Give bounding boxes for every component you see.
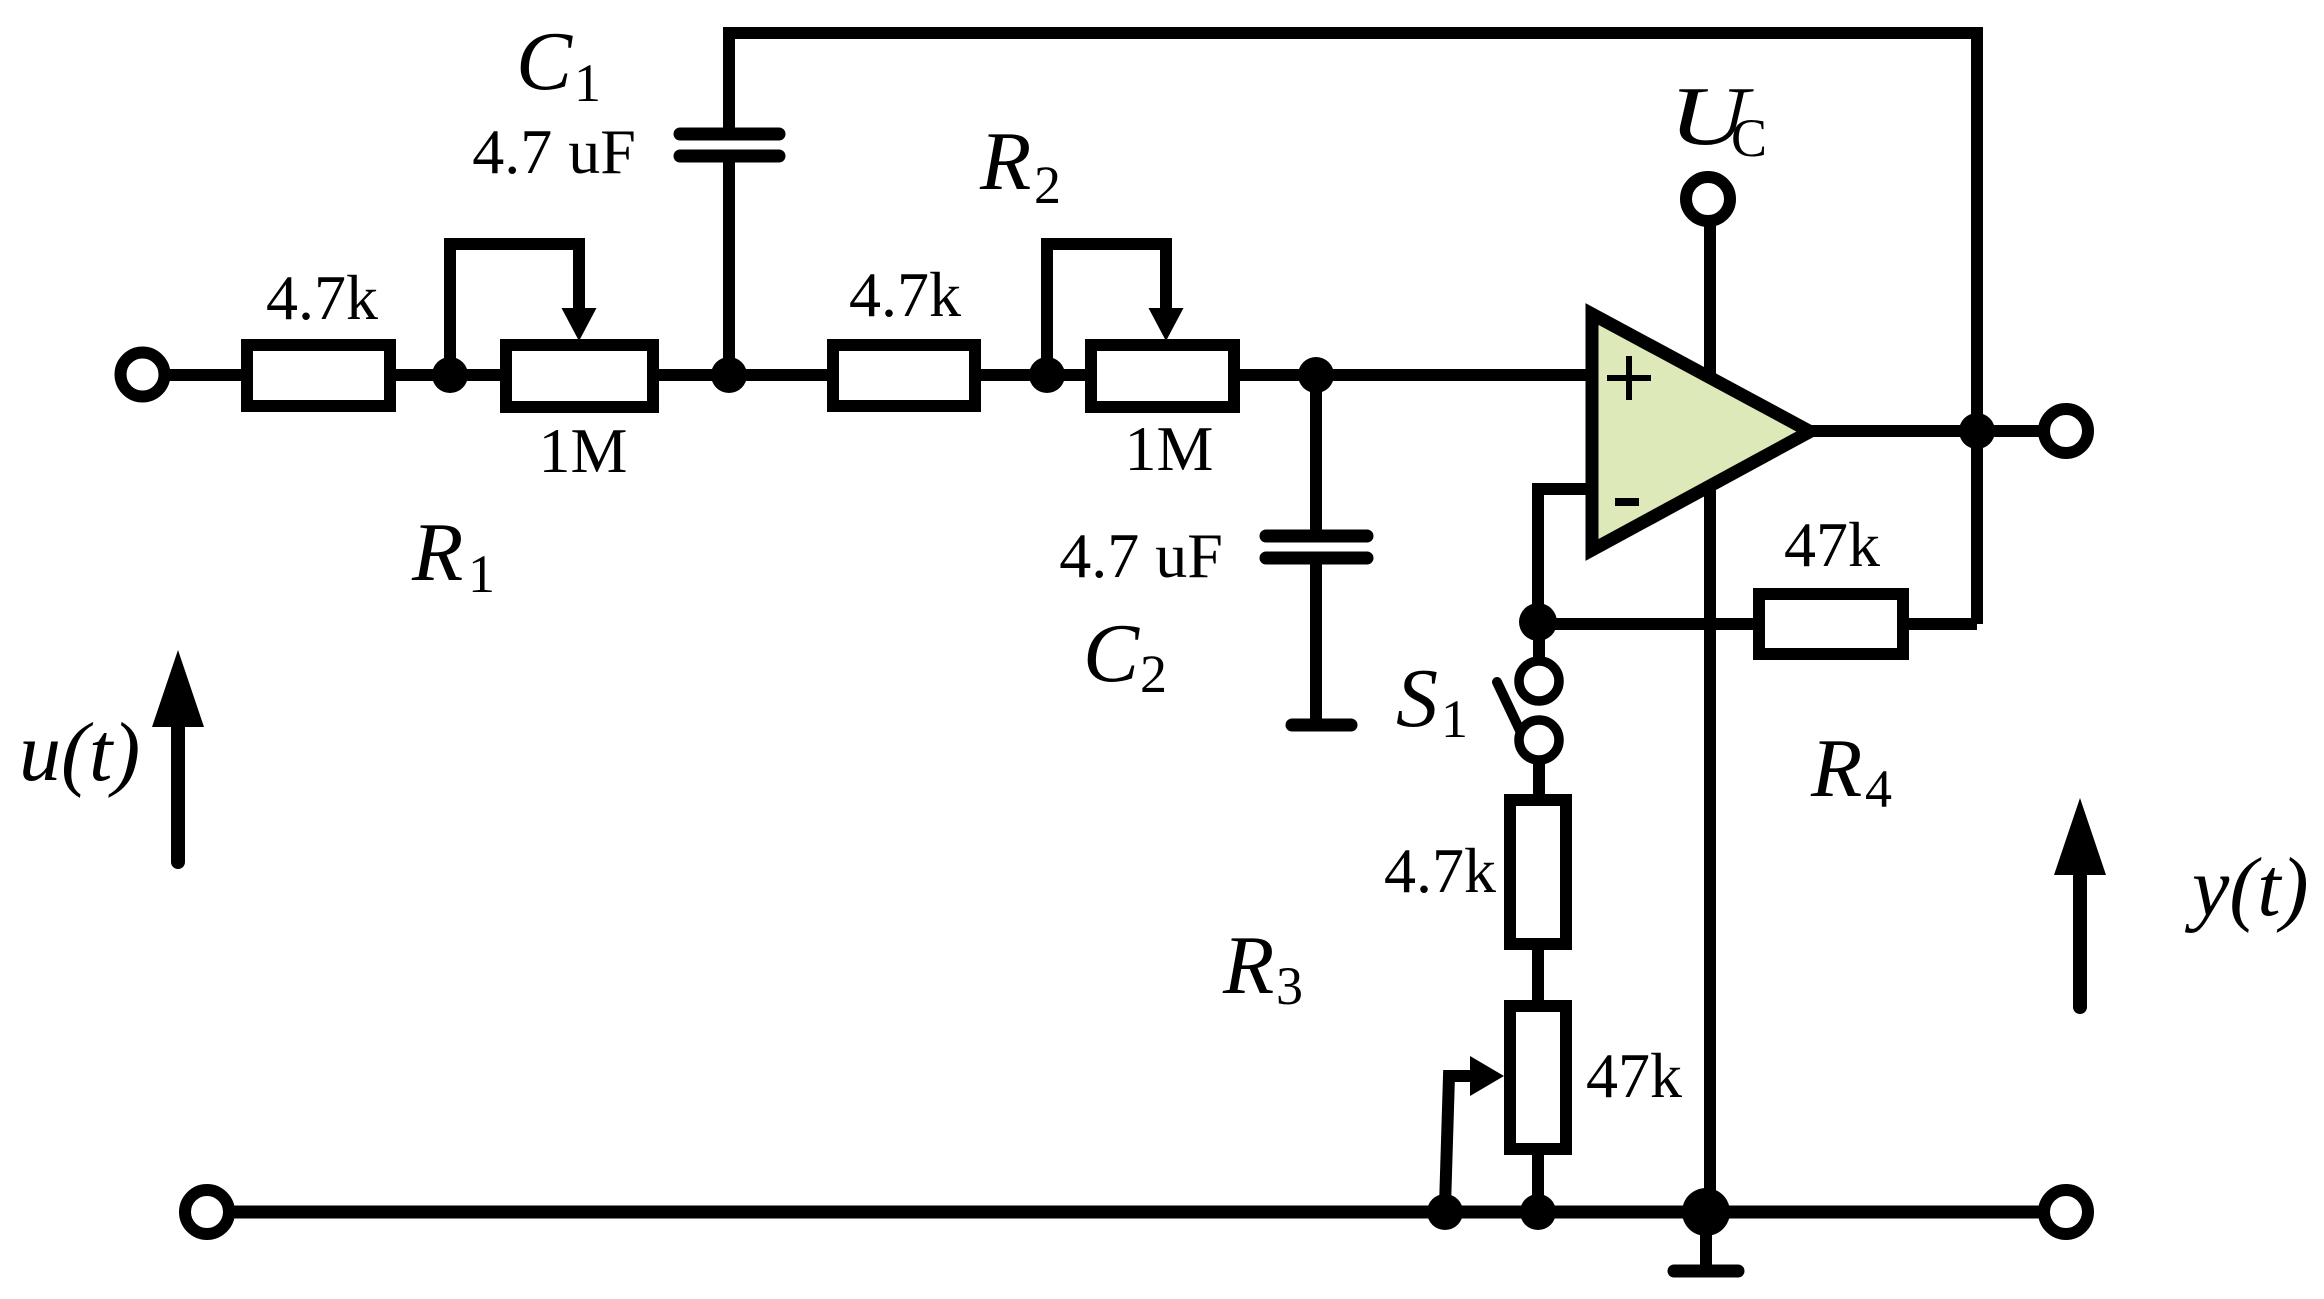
svg-text:C: C	[1083, 607, 1140, 700]
svg-text:R: R	[411, 506, 463, 599]
svg-text:y(t): y(t)	[2184, 841, 2309, 934]
svg-text:R: R	[1810, 722, 1862, 815]
svg-text:4.7k: 4.7k	[266, 262, 378, 333]
svg-text:1: 1	[574, 53, 601, 113]
svg-text:4.7 uF: 4.7 uF	[472, 116, 636, 187]
svg-text:47k: 47k	[1784, 509, 1880, 580]
svg-text:u(t): u(t)	[19, 706, 140, 799]
svg-text:R: R	[1222, 919, 1274, 1012]
svg-text:C: C	[1731, 108, 1767, 168]
svg-text:1: 1	[468, 544, 495, 604]
svg-text:1M: 1M	[1125, 413, 1214, 484]
svg-text:4: 4	[1865, 759, 1892, 819]
svg-text:R: R	[979, 115, 1031, 208]
svg-text:C: C	[516, 15, 573, 108]
svg-text:S: S	[1396, 652, 1438, 745]
svg-text:4.7k: 4.7k	[849, 259, 961, 330]
svg-text:2: 2	[1140, 644, 1167, 704]
svg-text:1: 1	[1441, 689, 1468, 749]
svg-text:1M: 1M	[539, 415, 628, 486]
svg-text:4.7 uF: 4.7 uF	[1059, 520, 1223, 591]
svg-text:4.7k: 4.7k	[1384, 835, 1496, 906]
svg-text:2: 2	[1034, 155, 1061, 215]
svg-text:47k: 47k	[1586, 1040, 1682, 1111]
svg-text:3: 3	[1276, 956, 1303, 1016]
